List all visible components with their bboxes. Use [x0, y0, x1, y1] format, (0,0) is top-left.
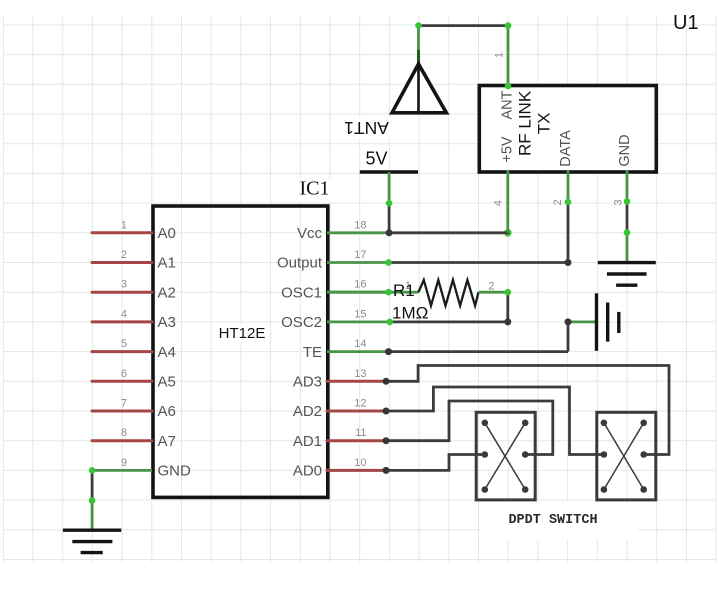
svg-text:11: 11	[355, 427, 366, 439]
svg-text:1: 1	[494, 52, 506, 58]
svg-text:DATA: DATA	[558, 130, 574, 167]
svg-text:A3: A3	[158, 314, 176, 331]
svg-text:GND: GND	[158, 463, 192, 480]
svg-text:9: 9	[121, 457, 127, 469]
svg-text:DPDT SWITCH: DPDT SWITCH	[508, 513, 597, 528]
svg-text:ANT: ANT	[500, 90, 516, 119]
svg-text:TX: TX	[535, 113, 554, 135]
svg-text:2: 2	[121, 249, 127, 261]
svg-text:1: 1	[121, 219, 127, 231]
svg-text:6: 6	[121, 368, 127, 380]
svg-text:3: 3	[121, 279, 127, 291]
svg-text:17: 17	[354, 249, 366, 261]
svg-text:OSC1: OSC1	[281, 284, 322, 301]
svg-text:4: 4	[493, 200, 505, 206]
svg-text:A1: A1	[158, 255, 176, 272]
svg-text:3: 3	[613, 199, 625, 205]
svg-text:U1: U1	[673, 12, 699, 34]
svg-text:Vcc: Vcc	[297, 225, 323, 242]
svg-text:Output: Output	[277, 255, 323, 272]
svg-text:5V: 5V	[365, 149, 387, 169]
svg-text:2: 2	[488, 281, 494, 293]
svg-text:A6: A6	[158, 403, 176, 420]
svg-text:18: 18	[354, 219, 366, 231]
svg-text:15: 15	[354, 308, 366, 320]
svg-text:2: 2	[552, 199, 564, 205]
svg-text:A7: A7	[158, 433, 176, 450]
svg-text:ANT1: ANT1	[344, 118, 389, 138]
svg-text:16: 16	[354, 279, 366, 291]
svg-text:+5V: +5V	[500, 136, 516, 163]
svg-text:12: 12	[354, 398, 366, 410]
svg-text:A2: A2	[158, 284, 176, 301]
svg-text:4: 4	[121, 308, 127, 320]
svg-text:8: 8	[121, 427, 127, 439]
svg-text:AD3: AD3	[293, 374, 322, 391]
svg-text:AD1: AD1	[293, 433, 322, 450]
svg-text:14: 14	[354, 338, 366, 350]
svg-text:13: 13	[354, 368, 366, 380]
svg-text:A0: A0	[158, 225, 176, 242]
svg-text:1MΩ: 1MΩ	[392, 304, 428, 323]
svg-text:OSC2: OSC2	[281, 314, 322, 331]
svg-text:TE: TE	[303, 344, 322, 361]
svg-text:5: 5	[121, 338, 127, 350]
svg-text:AD0: AD0	[293, 463, 322, 480]
svg-text:RF LINK: RF LINK	[516, 90, 535, 156]
svg-text:IC1: IC1	[300, 178, 330, 200]
svg-text:A4: A4	[158, 344, 176, 361]
svg-text:GND: GND	[617, 134, 633, 166]
svg-text:R1: R1	[393, 281, 415, 300]
svg-text:10: 10	[354, 457, 366, 469]
svg-text:7: 7	[121, 398, 127, 410]
svg-text:HT12E: HT12E	[219, 325, 266, 342]
svg-text:A5: A5	[158, 374, 176, 391]
svg-text:AD2: AD2	[293, 403, 322, 420]
